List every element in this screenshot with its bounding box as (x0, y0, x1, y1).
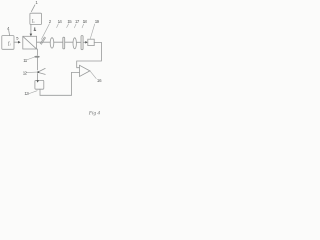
svg-text:Fig 4: Fig 4 (88, 109, 101, 116)
svg-text:16: 16 (97, 78, 102, 83)
svg-text:f1: f1 (8, 42, 11, 47)
